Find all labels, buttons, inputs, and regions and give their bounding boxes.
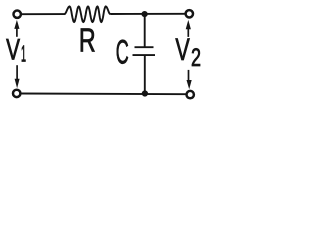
arrow down at V1 (toward bottom-left terminal) (15, 65, 20, 88)
wire: top-left terminal to resistor (22, 13, 65, 15)
terminal circle bottom-left (13, 90, 20, 97)
arrow up at V2 (toward top-right terminal) (186, 20, 191, 37)
terminal circle top-left (14, 11, 21, 18)
wire: resistor to top-right terminal (110, 13, 185, 15)
junction node bottom (142, 90, 148, 96)
terminal circle bottom-right (187, 91, 194, 98)
arrow up at V1 (toward top-left terminal) (14, 20, 19, 37)
resistor R (64, 6, 110, 22)
svg-text:1: 1 (21, 41, 26, 67)
label V1 (6, 33, 26, 66)
svg-text:V: V (175, 31, 190, 67)
junction node top (142, 11, 148, 17)
svg-text:R: R (79, 23, 96, 60)
capacitor C top lead wire (144, 14, 146, 47)
svg-text:V: V (6, 33, 20, 66)
arrow down at V2 (toward bottom-right terminal) (187, 70, 192, 89)
svg-text:2: 2 (191, 44, 201, 72)
label V2 (175, 31, 201, 72)
capacitor C top plate (135, 46, 154, 48)
terminal circle top-right (186, 10, 193, 17)
capacitor C bottom lead wire (144, 55, 146, 93)
wire: bottom rail (22, 93, 187, 96)
svg-text:C: C (116, 34, 129, 72)
capacitor C bottom plate (133, 54, 156, 56)
